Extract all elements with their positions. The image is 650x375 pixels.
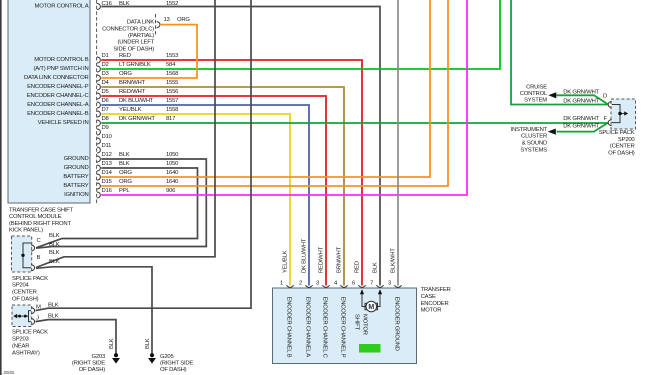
svg-text:(CENTER: (CENTER [610,144,635,150]
svg-text:BLK: BLK [49,242,60,248]
svg-text:D8: D8 [102,116,110,122]
svg-text:RED/WHT: RED/WHT [119,89,146,95]
svg-text:ENCODER CHANNEL-P: ENCODER CHANNEL-P [27,84,89,90]
svg-text:PPL: PPL [119,188,130,194]
svg-text:ENCODER: ENCODER [421,301,449,307]
svg-text:1050: 1050 [166,152,179,158]
svg-text:D9: D9 [102,125,109,131]
svg-text:ENCODER CHANNEL-C: ENCODER CHANNEL-C [27,93,90,99]
svg-text:1050: 1050 [166,161,179,167]
svg-text:BLK: BLK [145,338,151,349]
svg-text:M: M [36,305,41,311]
svg-text:ORG: ORG [119,170,132,176]
svg-text:J: J [36,315,39,321]
svg-text:D6: D6 [102,98,110,104]
svg-text:DATA LINK: DATA LINK [127,20,155,26]
svg-text:YEL/BLK: YEL/BLK [119,107,142,113]
svg-text:B: B [37,255,41,261]
svg-text:SP200: SP200 [618,137,636,143]
svg-text:SPLICE PACK: SPLICE PACK [12,330,48,336]
svg-text:D11: D11 [102,143,112,149]
svg-text:BLK: BLK [119,161,130,167]
svg-text:KICK PANEL): KICK PANEL) [9,227,43,233]
svg-text:RED/WHT: RED/WHT [319,246,325,273]
svg-text:584: 584 [166,62,176,68]
svg-text:1553: 1553 [166,53,179,59]
svg-text:ENCODER CHANNEL-B: ENCODER CHANNEL-B [27,111,89,117]
svg-text:MOTOR CONTROL B: MOTOR CONTROL B [34,57,89,63]
svg-text:CASE: CASE [421,294,436,300]
svg-text:INSTRUMENT: INSTRUMENT [511,127,548,133]
svg-text:BRN/WHT: BRN/WHT [337,246,343,273]
svg-text:OF DASH): OF DASH) [160,367,187,373]
svg-text:OF DASH): OF DASH) [608,150,635,156]
svg-text:CONNECTOR (DLC): CONNECTOR (DLC) [102,26,154,32]
svg-text:BLK: BLK [109,338,115,349]
svg-text:MOTOR CONTROL A: MOTOR CONTROL A [35,4,89,10]
svg-text:ENCODER CHANNEL P: ENCODER CHANNEL P [339,297,345,358]
svg-text:7: 7 [370,280,373,286]
svg-text:CLUSTER: CLUSTER [521,134,547,140]
svg-text:D2: D2 [102,62,109,68]
svg-text:& SOUND: & SOUND [522,141,547,147]
svg-text:ORG: ORG [119,179,132,185]
svg-text:(RIGHT SIDE: (RIGHT SIDE [72,361,105,367]
svg-text:ORG: ORG [177,17,190,23]
svg-text:DK GRN/WHT: DK GRN/WHT [563,116,599,122]
svg-text:D14: D14 [102,170,113,176]
svg-text:D5: D5 [102,89,110,95]
svg-text:D1: D1 [102,53,109,59]
svg-text:OF DASH): OF DASH) [12,297,39,303]
svg-text:LT GRN/BLK: LT GRN/BLK [119,62,151,68]
svg-text:D16: D16 [102,188,113,194]
svg-text:D12: D12 [102,152,112,158]
svg-text:1556: 1556 [166,89,179,95]
svg-text:ENCODER CHANNEL A: ENCODER CHANNEL A [304,297,310,358]
svg-text:D15: D15 [102,179,113,185]
svg-text:DATA LINK CONNECTOR: DATA LINK CONNECTOR [24,75,89,81]
svg-text:RED: RED [355,261,361,273]
svg-text:MOTOR: MOTOR [362,314,368,335]
svg-text:GROUND: GROUND [64,156,89,162]
svg-text:M: M [368,304,374,311]
svg-text:BLK: BLK [49,250,60,256]
svg-text:ASHTRAY): ASHTRAY) [12,351,40,357]
svg-text:DK GRN/WHT: DK GRN/WHT [119,116,155,122]
svg-text:SPLICE PACK: SPLICE PACK [599,130,635,136]
svg-text:(BEHIND RIGHT FRONT: (BEHIND RIGHT FRONT [9,221,71,227]
svg-text:(RIGHT SIDE: (RIGHT SIDE [160,361,193,367]
svg-text:D10: D10 [102,134,113,140]
svg-text:CONTROL MODULE: CONTROL MODULE [9,214,62,220]
svg-text:13: 13 [164,17,171,23]
svg-text:D7: D7 [102,107,109,113]
svg-text:SYSTEM: SYSTEM [524,98,547,104]
svg-text:CRUISE: CRUISE [526,84,547,90]
svg-text:(A/T) PNP SWITCH IN: (A/T) PNP SWITCH IN [34,66,89,72]
svg-text:1: 1 [280,280,283,286]
svg-text:DK BLU/WHT: DK BLU/WHT [302,238,308,273]
svg-text:1640: 1640 [166,179,179,185]
svg-text:ENCODER CHANNEL B: ENCODER CHANNEL B [285,297,291,358]
svg-text:BLK: BLK [119,152,130,158]
svg-text:GROUND: GROUND [64,165,89,171]
svg-text:SP203: SP203 [12,337,30,343]
svg-text:TRANSFER CASE SHIFT: TRANSFER CASE SHIFT [9,208,74,214]
svg-text:IGNITION: IGNITION [64,192,88,198]
svg-text:DK BLU/WHT: DK BLU/WHT [119,98,154,104]
svg-text:D3: D3 [102,71,110,77]
svg-text:817: 817 [166,116,175,122]
svg-text:(CENTER: (CENTER [12,290,37,296]
svg-text:CONTROL: CONTROL [520,91,548,97]
svg-text:G205: G205 [160,354,174,360]
svg-text:BLK: BLK [49,233,60,239]
svg-text:1558: 1558 [166,107,179,113]
svg-text:G203: G203 [91,354,105,360]
svg-text:BLK: BLK [49,259,60,265]
svg-text:BRN/WHT: BRN/WHT [119,80,146,86]
svg-text:SYSTEMS: SYSTEMS [520,148,547,154]
svg-text:YEL/BLK: YEL/BLK [283,250,289,273]
svg-text:ENCODER GROUND: ENCODER GROUND [393,297,399,351]
svg-text:SP204: SP204 [12,283,30,289]
svg-text:DK GRN/WHT: DK GRN/WHT [563,123,599,129]
svg-text:SIDE OF DASH): SIDE OF DASH) [113,46,154,52]
svg-text:J05/05: J05/05 [3,370,15,375]
svg-text:D: D [603,93,607,99]
svg-text:(PARTIAL): (PARTIAL) [128,33,154,39]
svg-text:D13: D13 [102,161,113,167]
svg-text:906: 906 [166,188,176,194]
svg-text:1555: 1555 [166,80,179,86]
svg-text:1640: 1640 [166,170,179,176]
svg-text:OF DASH): OF DASH) [79,367,106,373]
svg-text:MOTOR: MOTOR [421,308,442,314]
svg-text:D4: D4 [102,80,110,86]
svg-text:1568: 1568 [166,71,179,77]
svg-text:(UNDER LEFT: (UNDER LEFT [117,40,154,46]
svg-text:RED: RED [119,53,131,59]
svg-text:DK GRN/WHT: DK GRN/WHT [563,89,599,95]
svg-text:BATTERY: BATTERY [63,183,88,189]
svg-text:TRANSFER: TRANSFER [421,287,451,293]
svg-text:ENCODER CHANNEL-A: ENCODER CHANNEL-A [27,102,89,108]
svg-text:BLK: BLK [48,314,59,320]
svg-text:ENCODER CHANNEL C: ENCODER CHANNEL C [321,297,327,359]
svg-text:1557: 1557 [166,98,178,104]
svg-text:DK GRN/WHT: DK GRN/WHT [563,98,599,104]
svg-text:BLK: BLK [48,303,59,309]
svg-text:VEHICLE SPEED IN: VEHICLE SPEED IN [38,120,89,126]
svg-text:(NEAR: (NEAR [12,344,29,350]
svg-text:2: 2 [299,280,302,286]
svg-text:SHIFT: SHIFT [354,314,360,331]
svg-text:BLK/WHT: BLK/WHT [391,248,397,273]
svg-text:BLK: BLK [373,262,379,273]
svg-text:SPLICE PACK: SPLICE PACK [12,276,48,282]
svg-text:ORG: ORG [119,71,132,77]
svg-text:BATTERY: BATTERY [63,174,88,180]
